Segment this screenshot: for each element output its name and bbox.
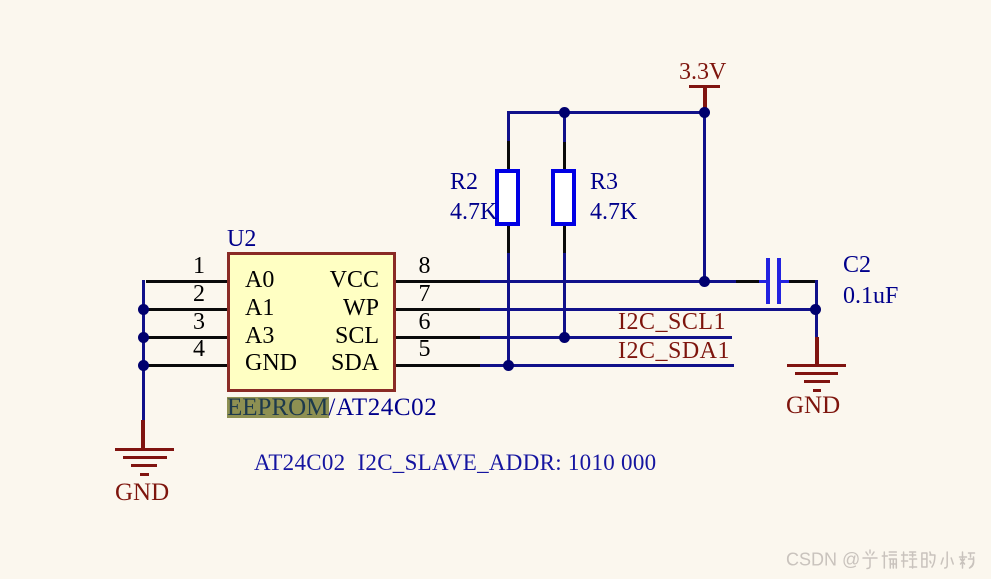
svg-text:CSDN @: CSDN @: [786, 550, 860, 570]
